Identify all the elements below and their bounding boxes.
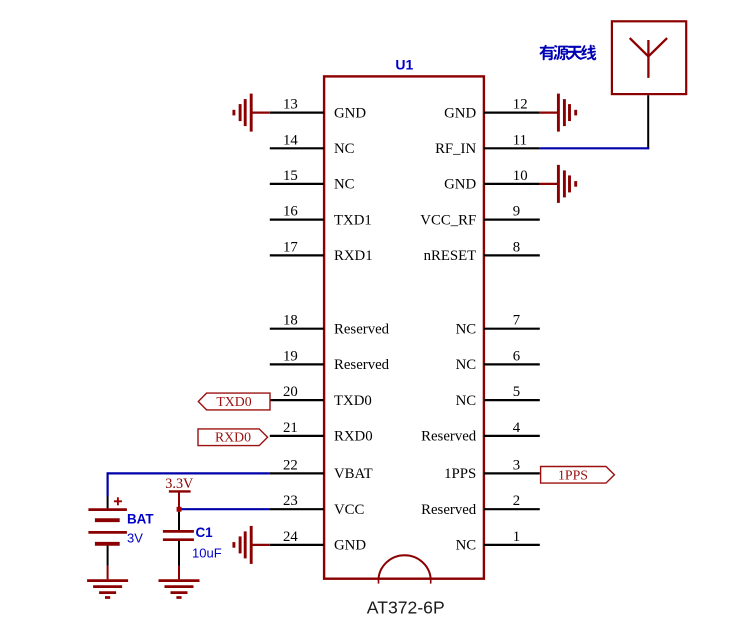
svg-text:10uF: 10uF [192,546,222,561]
svg-text:Reserved: Reserved [334,357,390,373]
svg-text:2: 2 [513,493,520,509]
svg-text:9: 9 [513,204,520,220]
svg-text:NC: NC [456,322,477,338]
svg-text:19: 19 [283,348,298,364]
svg-text:NC: NC [334,141,355,157]
svg-text:10: 10 [513,168,528,184]
svg-text:TXD1: TXD1 [334,212,372,228]
svg-text:NC: NC [456,393,477,409]
svg-text:7: 7 [513,313,520,329]
svg-text:GND: GND [334,105,366,121]
svg-text:RXD0: RXD0 [334,429,373,445]
svg-text:1PPS: 1PPS [558,467,588,482]
svg-text:C1: C1 [196,525,214,540]
svg-text:6: 6 [513,348,520,364]
svg-text:NC: NC [456,538,477,554]
svg-text:24: 24 [283,529,298,545]
svg-text:8: 8 [513,239,520,255]
svg-text:3V: 3V [127,530,143,545]
svg-text:3: 3 [513,457,520,473]
svg-text:14: 14 [283,132,298,148]
svg-text:Reserved: Reserved [334,322,390,338]
svg-text:RXD1: RXD1 [334,248,373,264]
svg-text:17: 17 [283,239,298,255]
svg-text:GND: GND [334,538,366,554]
svg-text:22: 22 [283,457,298,473]
svg-text:12: 12 [513,97,528,113]
svg-text:4: 4 [513,420,521,436]
svg-text:16: 16 [283,204,298,220]
svg-text:VBAT: VBAT [334,466,373,482]
svg-text:15: 15 [283,168,298,184]
svg-text:nRESET: nRESET [424,248,477,264]
svg-text:21: 21 [283,420,298,436]
svg-text:GND: GND [444,105,476,121]
svg-text:Reserved: Reserved [421,429,477,445]
svg-text:RXD0: RXD0 [215,430,251,445]
svg-text:NC: NC [456,357,477,373]
svg-text:TXD0: TXD0 [334,393,372,409]
svg-text:3.3V: 3.3V [165,476,194,492]
svg-text:5: 5 [513,384,520,400]
svg-text:1PPS: 1PPS [444,466,476,482]
svg-text:VCC_RF: VCC_RF [420,212,476,228]
svg-text:13: 13 [283,97,298,113]
svg-text:23: 23 [283,493,298,509]
svg-text:U1: U1 [395,56,413,72]
svg-text:TXD0: TXD0 [216,394,251,409]
svg-text:1: 1 [513,529,520,545]
svg-text:NC: NC [334,177,355,193]
svg-text:20: 20 [283,384,298,400]
svg-text:VCC: VCC [334,502,365,518]
svg-text:18: 18 [283,313,298,329]
svg-text:BAT: BAT [127,512,154,527]
svg-text:GND: GND [444,177,476,193]
svg-text:RF_IN: RF_IN [435,141,476,157]
svg-text:Reserved: Reserved [421,502,477,518]
svg-text:11: 11 [513,132,527,148]
svg-text:AT372-6P: AT372-6P [367,597,445,617]
